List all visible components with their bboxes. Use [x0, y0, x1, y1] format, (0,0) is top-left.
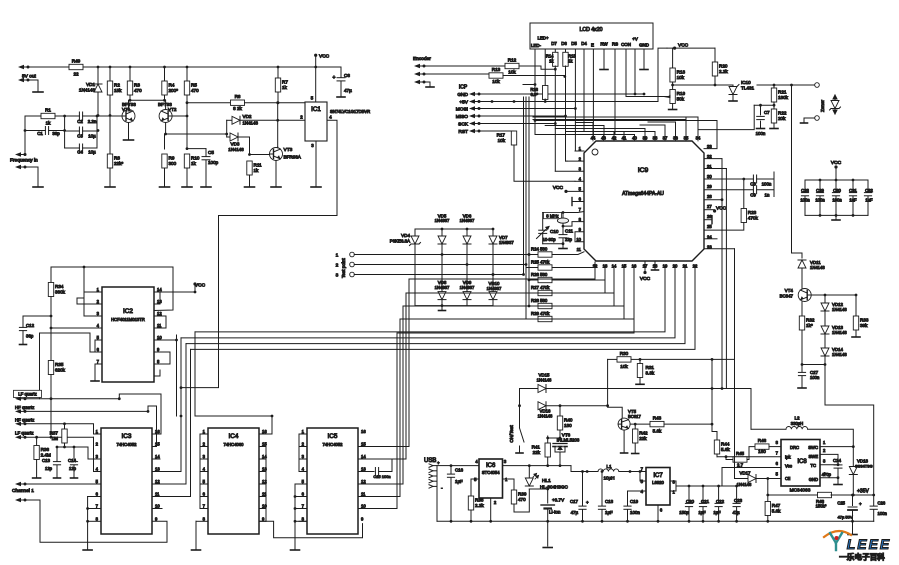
resistor R30 [608, 358, 617, 360]
svg-text:7: 7 [302, 504, 305, 509]
power VCC [314, 54, 317, 57]
wire IC7 pin6 down [657, 505, 659, 521]
resistor R46 [755, 444, 769, 449]
wire IC1 pin2 [278, 119, 305, 121]
svg-text:R23: R23 [748, 210, 757, 215]
wire L2 right to SWC [808, 429, 854, 446]
wire SWC pin1 [820, 446, 853, 448]
svg-text:R11: R11 [254, 163, 263, 168]
wire IC2 pin2 loop [77, 298, 102, 304]
svg-text:36p: 36p [26, 334, 34, 339]
svg-text:14: 14 [262, 454, 267, 459]
resistor R9 [162, 154, 167, 168]
svg-text:C23: C23 [734, 498, 743, 503]
wire battery to L1 [571, 466, 587, 472]
capacitor C4 [65, 147, 80, 149]
wire IC4 pin9 loop [259, 521, 363, 538]
wire C15 tail [391, 460, 393, 472]
svg-text:1N4148: 1N4148 [737, 482, 752, 487]
ground [669, 109, 677, 111]
svg-text:+5V: +5V [459, 100, 468, 106]
diode VD12 [821, 303, 829, 311]
svg-text:12: 12 [155, 479, 160, 484]
svg-text:R33: R33 [860, 318, 869, 323]
wire R10 node [186, 116, 188, 149]
svg-text:1M: 1M [52, 436, 59, 441]
svg-text:VT2: VT2 [168, 107, 177, 112]
capacitor C19 [627, 503, 629, 506]
resistor R32 [799, 316, 804, 330]
svg-text:R27 470k: R27 470k [531, 285, 550, 290]
svg-text:R6: R6 [235, 94, 241, 99]
wire R12 to D7 net [519, 66, 555, 69]
resistor R28 [529, 305, 538, 307]
resistor R1 [25, 115, 41, 117]
svg-text:1k: 1k [191, 161, 197, 166]
svg-text:CII: CII [785, 476, 790, 481]
svg-text:ATmega644PA-AU: ATmega644PA-AU [622, 191, 664, 197]
capacitor C22 [718, 486, 720, 503]
svg-text:C19: C19 [630, 499, 639, 504]
wire IC2 right loops [154, 292, 160, 304]
capacitor C15 [358, 471, 374, 473]
svg-text:R19: R19 [677, 91, 686, 96]
svg-text:C24: C24 [833, 458, 842, 463]
svg-text:IC6: IC6 [486, 463, 496, 469]
svg-text:1: 1 [203, 429, 206, 434]
svg-text:BFR93A: BFR93A [284, 155, 302, 160]
svg-text:ON/Test: ON/Test [509, 425, 515, 443]
svg-text:MC34063: MC34063 [790, 488, 811, 494]
wire IC9 verticals to IC8 [721, 159, 723, 389]
svg-text:22k: 22k [639, 436, 647, 441]
svg-text:C2: C2 [77, 119, 83, 124]
svg-text:15: 15 [155, 442, 160, 447]
svg-text:150µ: 150µ [679, 510, 689, 515]
resistor R10 [184, 154, 189, 168]
svg-text:R24 580: R24 580 [531, 246, 548, 251]
svg-text:C21: C21 [701, 499, 710, 504]
svg-text:CON: CON [621, 42, 631, 47]
resistor R25 [526, 265, 538, 268]
svg-text:1N4148: 1N4148 [79, 88, 96, 93]
svg-text:D5: D5 [571, 41, 577, 46]
wire LCD RW column to ground [603, 49, 605, 69]
svg-text:47µ: 47µ [732, 510, 740, 515]
svg-text:2: 2 [97, 299, 100, 304]
ground [124, 139, 134, 141]
svg-text:8 MHz: 8 MHz [546, 213, 558, 218]
svg-text:R3: R3 [134, 83, 140, 88]
wire VD15/VD16 left link [519, 389, 521, 406]
ground main rail drop [547, 521, 549, 546]
svg-text:Li-Ion: Li-Ion [549, 510, 561, 515]
svg-text:R17: R17 [497, 133, 506, 138]
wire IC9 pin7 to crystal [563, 212, 584, 213]
svg-text:ICP: ICP [459, 85, 468, 91]
svg-text:8: 8 [673, 480, 676, 485]
svg-text:5: 5 [776, 472, 779, 477]
svg-text:C20: C20 [686, 499, 695, 504]
wire VD14 junction [802, 364, 825, 366]
resistor R7 [277, 67, 279, 103]
svg-text:C25: C25 [837, 501, 845, 506]
power VCC [834, 165, 837, 168]
svg-text:R38: R38 [475, 498, 484, 503]
svg-text:15: 15 [262, 442, 267, 447]
svg-text:R43: R43 [653, 416, 662, 421]
charger IC6 STC4054 [479, 459, 503, 498]
svg-text:VD3: VD3 [231, 142, 240, 147]
svg-text:100n: 100n [832, 198, 842, 203]
svg-text:1k: 1k [568, 59, 573, 64]
svg-text:C1: C1 [37, 131, 43, 136]
diode VD7 [492, 228, 495, 231]
svg-text:74HC4052: 74HC4052 [116, 442, 137, 447]
svg-text:13: 13 [361, 467, 366, 472]
wire IC9 pin33 up [535, 121, 717, 149]
wire test line 3 dots [492, 273, 495, 276]
wire LCD LED+ column [544, 49, 546, 86]
ground [192, 549, 201, 551]
op-amp IC1 SN74LVC1G17DBVR [305, 102, 327, 141]
resistor R4 [164, 67, 166, 100]
wire IC5 left stubs [299, 433, 307, 435]
wire TC pin3 [820, 464, 838, 466]
svg-text:SS34T3G: SS34T3G [855, 464, 873, 469]
svg-text:4: 4 [96, 467, 99, 472]
svg-text:1µF: 1µF [698, 510, 706, 515]
wire IC9 bottom pins 19-22 west bus [195, 266, 665, 332]
wire battery node [529, 488, 547, 490]
svg-text:6.8*: 6.8* [531, 92, 539, 97]
capacitor C16 [450, 466, 452, 474]
svg-text:一乐电子百科: 一乐电子百科 [839, 552, 885, 562]
wire bus above IC9 [535, 135, 635, 138]
wire VD2 branch [277, 103, 279, 147]
wire IC9 pin17 VCC [644, 261, 646, 271]
wire IC4 left stubs [200, 433, 208, 435]
svg-text:47µ 50V: 47µ 50V [838, 515, 853, 520]
capacitor C13 [56, 447, 58, 461]
svg-text:VD2: VD2 [243, 114, 252, 119]
resistor R24 [529, 254, 538, 256]
svg-text:1k*: 1k* [806, 323, 813, 328]
wire L2 left feed [751, 428, 786, 430]
wire cap bank top rail [805, 179, 868, 181]
resistor R17 [511, 131, 516, 145]
diode VD1 [97, 67, 99, 116]
svg-text:470: 470 [518, 497, 526, 502]
svg-text:IC3: IC3 [122, 433, 132, 440]
svg-text:IC4: IC4 [229, 433, 239, 440]
svg-text:2.2n: 2.2n [88, 119, 97, 124]
svg-text:LED+: LED+ [537, 36, 549, 41]
wire +BAT to IC8 region [689, 485, 722, 487]
ground IC9 pin18 [654, 261, 656, 269]
wire LCD D7 column [554, 49, 556, 53]
ground [835, 215, 837, 219]
svg-text:100n: 100n [815, 198, 825, 203]
svg-text:8: 8 [302, 516, 305, 521]
svg-text:IC7: IC7 [653, 473, 663, 479]
svg-text:R30: R30 [620, 351, 629, 356]
wire VT5 base right [630, 423, 650, 425]
svg-text:+: + [437, 461, 440, 466]
ground [834, 484, 842, 486]
ground [160, 186, 170, 188]
wire test line 1 continuation [528, 253, 531, 256]
svg-text:LF quartz: LF quartz [15, 431, 34, 436]
svg-text:C15 100n: C15 100n [373, 474, 390, 479]
svg-text:RS: RS [612, 42, 618, 47]
svg-text:SWC: SWC [808, 445, 818, 450]
ground [600, 69, 608, 71]
wire IC9 pin29 to C9 [704, 189, 753, 191]
capacitor C31 [852, 180, 854, 192]
svg-text:R7: R7 [282, 80, 288, 85]
svg-text:8: 8 [157, 359, 160, 364]
svg-text:2: 2 [96, 442, 99, 447]
svg-text:C3: C3 [77, 134, 83, 139]
svg-text:TC: TC [810, 463, 816, 468]
svg-text:BC817: BC817 [628, 414, 641, 419]
diode VD8 [441, 255, 443, 292]
svg-text:11: 11 [155, 492, 160, 497]
wire VT1-VT2 tops [130, 99, 165, 101]
ground [632, 453, 639, 455]
diode VD13 [821, 326, 829, 334]
wire VD12-14 chain top [824, 295, 826, 303]
wire LCD +V column [634, 49, 636, 94]
wire L1 node down [586, 471, 588, 473]
diode VD16 [538, 402, 546, 410]
wire IC6 pin5 R38 [471, 479, 479, 496]
ground [559, 248, 567, 250]
mux IC3 74HC4052 [101, 428, 152, 534]
svg-text:1: 1 [96, 429, 99, 434]
svg-text:C13: C13 [42, 458, 51, 463]
svg-text:L6920: L6920 [652, 480, 664, 485]
svg-text:10k: 10k [492, 79, 500, 84]
wire IC5 pins 6-8 bus [295, 496, 307, 498]
svg-text:R44: R44 [721, 442, 730, 447]
svg-text:STC4054: STC4054 [482, 470, 500, 475]
svg-text:16: 16 [361, 429, 366, 434]
capacitor C12 [23, 315, 51, 317]
wire VT4 emitter [801, 302, 803, 317]
resistor R44 [716, 432, 718, 441]
svg-text:100p: 100p [208, 160, 219, 165]
wire R13 to D6 net [503, 76, 565, 77]
svg-text:IC2: IC2 [123, 308, 133, 315]
wire IC6 pin1 R39 [503, 479, 515, 490]
ground [91, 380, 99, 382]
svg-text:VT4: VT4 [785, 288, 794, 293]
svg-text:SN74LVC1G17DBVR: SN74LVC1G17DBVR [330, 109, 370, 114]
svg-text:5.6k: 5.6k [653, 429, 662, 434]
svg-text:R2: R2 [114, 83, 120, 88]
svg-text:1µF: 1µF [713, 510, 721, 515]
transistor VT1 BFT93 [122, 110, 135, 123]
capacitor C27 [801, 365, 803, 373]
wire VT6 gate link [548, 437, 560, 439]
svg-text:8: 8 [96, 516, 99, 521]
svg-text:3.3k: 3.3k [646, 370, 655, 375]
wire ladder verticals [24, 116, 26, 155]
ground [182, 186, 192, 188]
svg-text:9: 9 [361, 516, 364, 521]
capacitor C11 [562, 226, 564, 234]
svg-text:7: 7 [776, 451, 779, 456]
wire R21/R22 node [754, 104, 774, 106]
resistor R36 [36, 437, 38, 445]
svg-text:33: 33 [707, 144, 712, 149]
svg-text:C10: C10 [550, 229, 559, 234]
svg-text:10k: 10k [677, 75, 685, 80]
capacitor C30 [835, 180, 837, 192]
svg-text:USB: USB [424, 458, 436, 464]
wire VT3 base node [249, 137, 251, 155]
svg-text:VCC: VCC [195, 283, 206, 289]
capacitor C21 [702, 486, 704, 503]
svg-text:HF quartz: HF quartz [15, 405, 34, 410]
svg-text:VCC: VCC [640, 276, 651, 282]
wire IC7 pin4 [628, 491, 647, 503]
wire ICP MOSI row [479, 108, 575, 110]
svg-text:12: 12 [361, 479, 366, 484]
capacitor C6 [340, 67, 342, 78]
svg-text:10k: 10k [620, 364, 628, 369]
svg-text:25: 25 [707, 224, 712, 229]
svg-text:180: 180 [758, 449, 766, 454]
svg-text:4: 4 [475, 459, 478, 464]
diode zener [834, 95, 836, 101]
svg-text:R12: R12 [508, 58, 517, 63]
svg-text:150k*: 150k* [816, 504, 827, 509]
wire USB shield down [436, 486, 438, 521]
wire LCD D5 column [574, 49, 576, 109]
svg-text:C5: C5 [208, 150, 214, 155]
svg-text:9: 9 [155, 516, 158, 521]
svg-text:VCC: VCC [831, 160, 842, 166]
svg-text:200*: 200* [169, 88, 179, 93]
svg-text:470p: 470p [822, 472, 832, 477]
svg-text:6: 6 [776, 461, 779, 466]
svg-text:22p: 22p [565, 237, 573, 242]
resistor R47 [767, 479, 769, 502]
resistor R15 [563, 52, 568, 66]
connector 5V out [18, 65, 24, 69]
svg-text:10: 10 [155, 504, 160, 509]
wire TL431 node [673, 84, 733, 86]
svg-text:DRC: DRC [790, 445, 799, 450]
ground [636, 383, 644, 385]
svg-text:RW: RW [600, 42, 608, 47]
svg-text:12p: 12p [69, 466, 77, 471]
svg-text:+V: +V [632, 37, 638, 42]
svg-text:R39: R39 [518, 492, 527, 497]
svg-text:3: 3 [96, 454, 99, 459]
svg-text:Vcc: Vcc [785, 464, 792, 469]
diode VD3 [230, 133, 238, 141]
wire quartz net HF1 [25, 410, 148, 412]
wire IC9 pin27 VCC [704, 209, 715, 211]
resistor R21 [773, 85, 775, 88]
svg-text:R36: R36 [41, 447, 50, 452]
ground [33, 477, 41, 479]
svg-text:4: 4 [203, 467, 206, 472]
svg-text:+3.7V: +3.7V [552, 498, 565, 503]
svg-text:14: 14 [155, 454, 160, 459]
svg-text:1: 1 [579, 146, 582, 151]
wire IC4 right stubs [259, 433, 266, 435]
svg-text:R47: R47 [772, 503, 781, 508]
svg-text:9: 9 [262, 516, 265, 521]
ground [105, 186, 115, 188]
terminal zener bottom [815, 116, 820, 121]
svg-text:R1: R1 [45, 107, 51, 112]
resistor R26 [529, 279, 538, 281]
counter IC4 74HC4060 [208, 428, 259, 534]
svg-text:C31: C31 [849, 188, 857, 193]
svg-text:MOSI: MOSI [456, 107, 468, 113]
resistor R27 [526, 290, 538, 293]
transistor VT3 BFR93A [270, 148, 283, 161]
wire IC9 pin5 VCC [566, 190, 584, 192]
svg-text:+: + [333, 75, 336, 81]
wire LCD RS column [614, 49, 615, 137]
svg-text:13: 13 [155, 467, 160, 472]
svg-text:R25 470k: R25 470k [531, 259, 550, 264]
wire input node to VT1 base [97, 115, 122, 117]
wire GND pin4 [820, 477, 838, 479]
svg-text:470k: 470k [748, 215, 759, 220]
wire cross bus to IC4 [195, 416, 272, 434]
wire from zener to VD11 [792, 85, 803, 258]
svg-text:100n: 100n [810, 375, 820, 380]
svg-text:300: 300 [169, 161, 177, 166]
svg-text:C28: C28 [801, 188, 809, 193]
svg-text:2: 2 [300, 115, 303, 120]
mux IC5 74HC4052 [307, 428, 358, 534]
capacitor C1 [25, 130, 45, 132]
svg-text:-: - [441, 486, 443, 492]
wire diode array bottom rail [415, 305, 493, 307]
svg-text:D7: D7 [551, 41, 557, 46]
wire quartz net LF2 [25, 436, 94, 438]
wire IC2 pin7 ground [95, 363, 102, 365]
resistor R43 [650, 421, 664, 426]
wire to +35V sense [825, 365, 874, 496]
svg-text:100n: 100n [762, 182, 772, 187]
svg-text:3: 3 [823, 459, 826, 464]
ground [337, 96, 345, 98]
svg-text:100n: 100n [630, 510, 640, 515]
svg-text:GND: GND [639, 43, 649, 48]
resistor R38 [468, 496, 473, 510]
wire VT5 emitter [623, 430, 625, 452]
svg-text:2: 2 [579, 156, 582, 161]
svg-text:30: 30 [707, 174, 712, 179]
svg-text:R41: R41 [532, 445, 541, 450]
svg-text:2: 2 [494, 500, 497, 505]
svg-text:12: 12 [262, 479, 267, 484]
svg-text:5: 5 [203, 479, 206, 484]
wire IC6 pin3 node [503, 465, 572, 467]
svg-text:R21: R21 [778, 90, 787, 95]
svg-text:100n: 100n [756, 131, 766, 136]
